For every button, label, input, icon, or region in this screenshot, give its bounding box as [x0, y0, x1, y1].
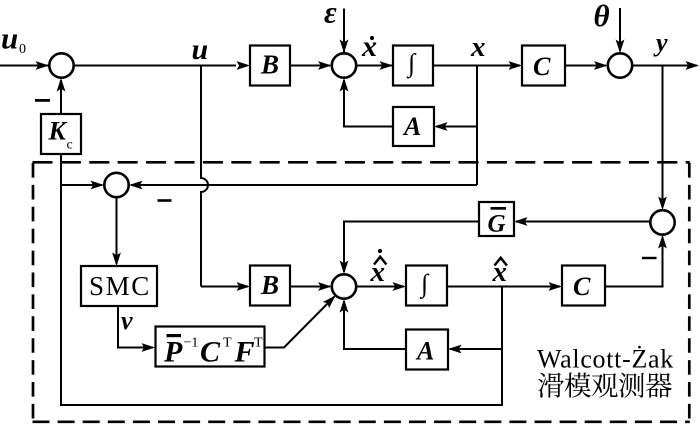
wire y branch down to S6 [662, 66, 664, 208]
wire S6 to Gbar [516, 221, 650, 223]
wire x branch down [476, 66, 478, 186]
wire B2 to S5 [290, 286, 330, 288]
arrowhead down into S6 top [658, 197, 667, 211]
svg-text:θ: θ [594, 0, 610, 33]
wire x to A1 [436, 126, 477, 128]
wire theta into S3 [619, 8, 621, 51]
summing junction S2 [332, 53, 356, 77]
svg-text:T: T [254, 336, 263, 351]
wire input u0 [0, 65, 49, 67]
label minus at S4 [158, 199, 172, 202]
summing junction S6 [650, 210, 674, 234]
svg-text:F: F [234, 336, 255, 369]
block Kc [41, 114, 81, 154]
wire u branch to B2 [201, 286, 248, 288]
svg-text:Walcott-Żak: Walcott-Żak [537, 345, 674, 374]
svg-text:C: C [533, 52, 551, 81]
svg-text:B: B [260, 50, 279, 80]
svg-text:SMC: SMC [89, 271, 151, 301]
wire Kc to S1 [60, 80, 62, 114]
dashed observer boundary box [33, 162, 690, 422]
block B2 [250, 266, 290, 306]
block Gbar [479, 202, 514, 236]
svg-text:−1: −1 [184, 336, 199, 351]
svg-text:A: A [402, 112, 421, 141]
svg-text:v: v [121, 306, 133, 335]
svg-text:T: T [223, 336, 232, 351]
block C1 [522, 46, 565, 86]
svg-text:u: u [192, 33, 209, 66]
wire x feedback into S4 right side [131, 184, 477, 186]
block P inverse CT FT [156, 327, 265, 367]
svg-text:ε: ε [324, 0, 337, 30]
arrowhead into integrator2 [393, 282, 407, 291]
wire A2 to S5 bottom [344, 301, 406, 349]
arrowhead into S4 left [91, 181, 105, 190]
arrowhead into A2 right side [448, 345, 462, 354]
arrowhead down into SMC [112, 253, 121, 267]
svg-text:C: C [200, 336, 221, 369]
wire xhat branch down to A2 [450, 348, 502, 350]
arrowhead into S1 [36, 61, 50, 70]
wire S2 to integrator1 [357, 65, 393, 67]
wire S5 to integrator2 [357, 286, 405, 288]
svg-text:0: 0 [19, 42, 26, 57]
svg-text:y: y [653, 28, 668, 57]
summing junction S1 [49, 53, 73, 77]
arrowhead into A1 right side [434, 122, 448, 131]
svg-text:u: u [1, 21, 18, 56]
label xdot dot mark [370, 36, 374, 40]
arrowhead diagonal into S5 lower-left [323, 292, 339, 308]
summing junction S3 [608, 53, 632, 77]
arrowhead into S3 left [594, 61, 608, 70]
arrowhead into integrator1 [380, 61, 394, 70]
wire integrator1 to C1 with node x branch [433, 65, 520, 67]
summing junction S4 [104, 173, 128, 197]
svg-text:P: P [163, 336, 183, 369]
block A2 [406, 330, 448, 370]
block integrator1 [393, 46, 433, 86]
block SMC [81, 266, 157, 306]
arrowhead down into S5 top [340, 261, 349, 275]
label minus at S6 [642, 257, 657, 259]
arrowhead into B1 [237, 61, 251, 70]
wire C1 to S3 [565, 65, 606, 67]
svg-text:c: c [67, 138, 73, 153]
arrowhead into S4 right [129, 181, 143, 190]
label Chinese huamo guanceqi [538, 373, 672, 398]
arrowhead Kc up into S1 bottom [57, 78, 66, 92]
arrowhead epsilon down into S2 [340, 40, 349, 54]
svg-text:x: x [361, 30, 377, 63]
wire P block diagonal to S5 [265, 297, 335, 348]
wire Gbar to S5 top [344, 222, 479, 273]
arrowhead up into S5 bottom [340, 299, 349, 313]
label minus at S1 [35, 99, 50, 102]
arrowhead theta down into S3 [616, 40, 625, 54]
wire integrator2 to C2 with node xhat branch [447, 286, 560, 288]
arrowhead into C2 [549, 282, 563, 291]
wire epsilon into S2 [343, 9, 345, 53]
summing junction S5 [332, 274, 356, 298]
block C2 [562, 266, 605, 306]
wire SMC to P block [118, 306, 153, 348]
arrowhead up into S2 bottom [340, 78, 349, 92]
wire S4 to SMC [116, 198, 118, 265]
wire B1 to S2 [290, 65, 330, 67]
wire A1 to S2 bottom [344, 80, 393, 127]
svg-text:C: C [573, 272, 591, 301]
wire S1 to B1 with node u branch [74, 65, 236, 67]
svg-text:G: G [488, 211, 506, 238]
wire C2 to S6 bottom [605, 237, 663, 287]
arrowhead into P block [142, 343, 156, 352]
wire S3 to output y [633, 65, 698, 67]
svg-text:B: B [260, 270, 279, 300]
arrowhead into C1 [509, 61, 523, 70]
svg-text:K: K [48, 117, 68, 146]
block B1 [250, 46, 290, 86]
arrowhead into S2 left [318, 61, 332, 70]
arrowhead into Gbar right side [514, 217, 528, 226]
arrowhead into B2 [237, 282, 251, 291]
svg-text:x: x [470, 31, 486, 63]
arrowhead output y right edge [686, 61, 700, 70]
block A1 [393, 107, 434, 146]
arrowhead up into S6 bottom [658, 235, 667, 249]
block integrator2 [406, 266, 447, 306]
wire branch to S4 left [61, 184, 102, 186]
wire Kc down, bottom feedback line, up to xhat line [61, 154, 502, 405]
arrowhead into S5 left [318, 282, 332, 291]
wire u branch down to B2 row, with hop bump over S4 feedback line [201, 66, 208, 287]
svg-text:A: A [415, 337, 434, 366]
